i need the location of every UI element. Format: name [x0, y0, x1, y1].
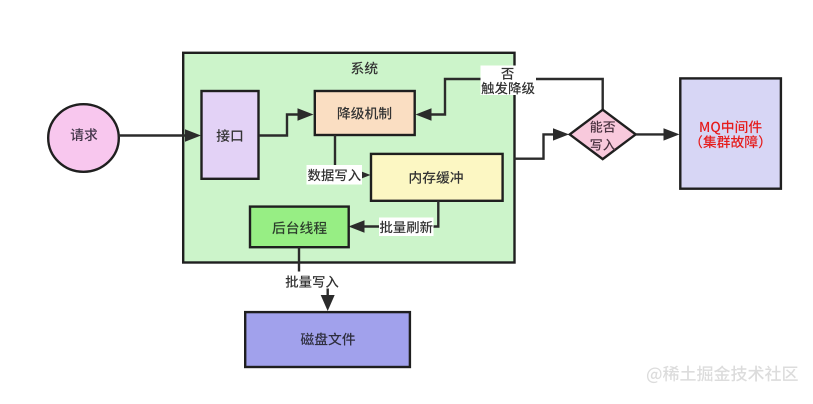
node 请求 (request circle) [48, 104, 119, 172]
label 批量刷新 [379, 218, 434, 237]
box 系统 (system container) [183, 53, 514, 263]
label 否 触发降级 [481, 66, 537, 96]
box 降级机制 (degradation mechanism) [315, 91, 415, 135]
wire 能否写入→降级机制 feedback (否/触发降级) [416, 79, 603, 121]
box 磁盘文件 (disk file) [245, 312, 410, 367]
wire 请求→接口 arrow [119, 129, 202, 141]
wire 后台线程→磁盘文件 upper segment [298, 247, 300, 272]
label 数据写入 [307, 165, 363, 185]
box 接口 (interface) [202, 91, 259, 179]
label 批量写入 [286, 273, 339, 291]
wire 能否写入→MQ中间件 arrow [636, 128, 680, 140]
box 内存缓冲 (memory buffer) [371, 154, 503, 201]
wire 接口→降级机制 arrow [259, 108, 314, 135]
box 后台线程 (background thread) [250, 207, 349, 248]
wire 批量写入→磁盘文件 arrow segment [321, 289, 335, 312]
decision 能否写入 (diamond) [570, 110, 636, 159]
wire 降级机制→内存缓冲 arrow [335, 135, 371, 181]
wire 内存缓冲→后台线程 arrow [349, 201, 439, 233]
watermark @稀土掘金技术社区 [647, 365, 798, 383]
box MQ中间件（集群故障） [680, 78, 781, 188]
wire 系统→能否写入 arrow [514, 128, 569, 159]
